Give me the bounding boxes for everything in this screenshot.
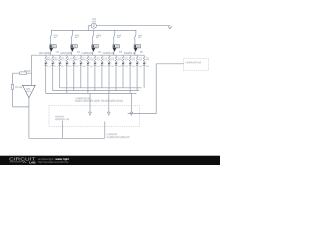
svg-text:http://circuitlab.com/c/2b7u3u: http://circuitlab.com/c/2b7u3u [38,161,69,164]
svg-text:amplexungirl / water light: amplexungirl / water light [38,157,69,161]
svg-text:LAB: LAB [29,160,36,164]
